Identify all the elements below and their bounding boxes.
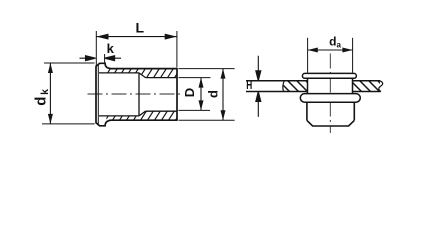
dimension dk extension bottom (42, 123, 95, 125)
dimension d arrow bottom (221, 110, 226, 120)
dimension da arrow left (308, 48, 318, 53)
hatch top thin wall (107, 69, 140, 73)
hatch top thick wall (139, 69, 177, 78)
svg-text:k: k (107, 41, 115, 56)
dimension d extension bottom (179, 119, 235, 121)
sheet hatch right (353, 81, 380, 92)
sheet cut edge left (283, 81, 284, 92)
dimension dk arrow bottom (48, 114, 53, 124)
dimension L line (96, 36, 177, 38)
dimension d line (222, 69, 224, 121)
dimension dk line (49, 63, 51, 124)
dimension da line (308, 49, 353, 51)
dimension k extension (104, 54, 106, 63)
lower body side left (306, 102, 308, 120)
dimension D extension top (179, 77, 211, 79)
dimension L extension left (95, 31, 97, 67)
dimension dk arrow top (48, 63, 53, 73)
sheet break edge right (379, 81, 383, 92)
sheet top line right (353, 80, 381, 82)
bore bottom thin line (99, 115, 139, 117)
svg-text:H: H (246, 80, 252, 93)
flange outline (96, 63, 111, 126)
sheet hatch left (283, 81, 308, 92)
dimension H arrow top (256, 56, 261, 81)
dimension D arrow top (199, 78, 204, 88)
lower body chamfer bottom (307, 120, 354, 126)
flange bore face line (97, 64, 99, 125)
sheet bottom line left (246, 91, 308, 93)
dimension da arrow right (342, 48, 352, 53)
dimension L extension right (176, 31, 178, 68)
dimension da extension right (352, 38, 354, 73)
dimension D arrow bottom (199, 100, 204, 110)
svg-text:d: d (206, 90, 221, 98)
bulge stadium (300, 94, 360, 103)
bore chamfer bottom (139, 111, 146, 116)
body outer top edge (110, 68, 178, 70)
body outer bottom edge (110, 119, 178, 121)
sheet bottom line right (353, 91, 381, 93)
svg-text:da: da (329, 35, 341, 50)
dimension dk extension top (44, 62, 95, 64)
thread bore bottom line (146, 110, 178, 112)
dimension k arrow left outside (80, 56, 96, 61)
centerline nut axis (88, 93, 182, 95)
dimension D line (200, 78, 202, 111)
bore chamfer top (139, 73, 146, 78)
dimension k arrow right outside (105, 56, 121, 61)
dimension L arrow right (165, 34, 177, 40)
bore top thin line (99, 72, 139, 74)
hatch bottom thick wall (139, 111, 177, 120)
dimension L arrow left (96, 34, 108, 40)
dimension H arrow bottom (256, 92, 261, 117)
hatch bottom thin wall (107, 116, 140, 120)
svg-text:L: L (136, 20, 145, 36)
bore step edge (138, 73, 140, 116)
dimension D extension bottom (179, 109, 211, 111)
body end face (176, 68, 178, 121)
flange head stadium (302, 73, 356, 78)
dimension d arrow top (221, 69, 226, 79)
svg-text:dk: dk (33, 89, 52, 106)
dimension d extension top (179, 68, 235, 70)
neck through sheet right (352, 78, 354, 93)
centerline vertical axis (329, 54, 331, 134)
lower body side right (353, 102, 355, 120)
neck through sheet left (307, 78, 309, 93)
thread bore top line (146, 77, 178, 79)
sheet top line left (246, 80, 308, 82)
dimension da extension left (307, 38, 309, 73)
svg-text:D: D (182, 88, 197, 97)
